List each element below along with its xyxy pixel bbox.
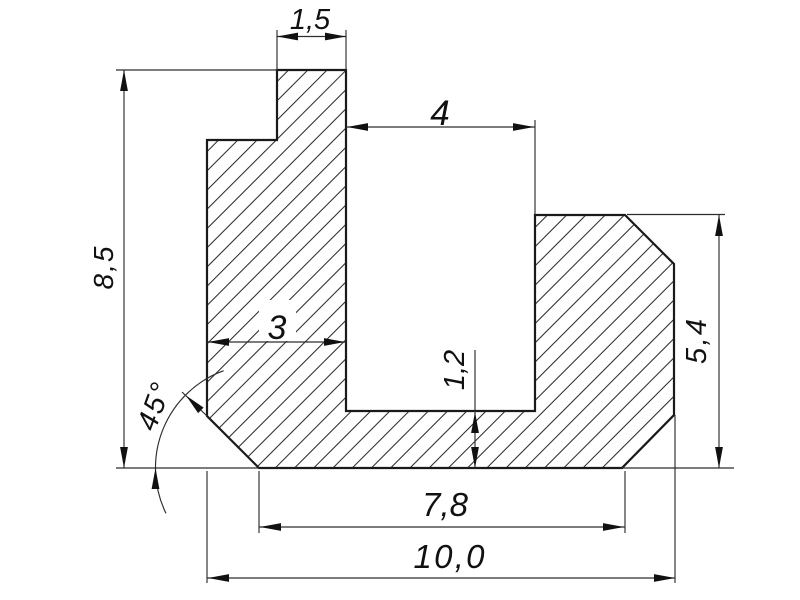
svg-text:1,5: 1,5 xyxy=(290,4,331,36)
svg-text:3: 3 xyxy=(268,309,287,347)
svg-text:10,0: 10,0 xyxy=(414,538,486,575)
svg-text:8,5: 8,5 xyxy=(88,246,119,289)
svg-text:5,4: 5,4 xyxy=(681,319,713,364)
svg-text:4: 4 xyxy=(430,94,449,133)
svg-text:1,2: 1,2 xyxy=(439,350,471,390)
svg-text:7,8: 7,8 xyxy=(422,486,469,523)
